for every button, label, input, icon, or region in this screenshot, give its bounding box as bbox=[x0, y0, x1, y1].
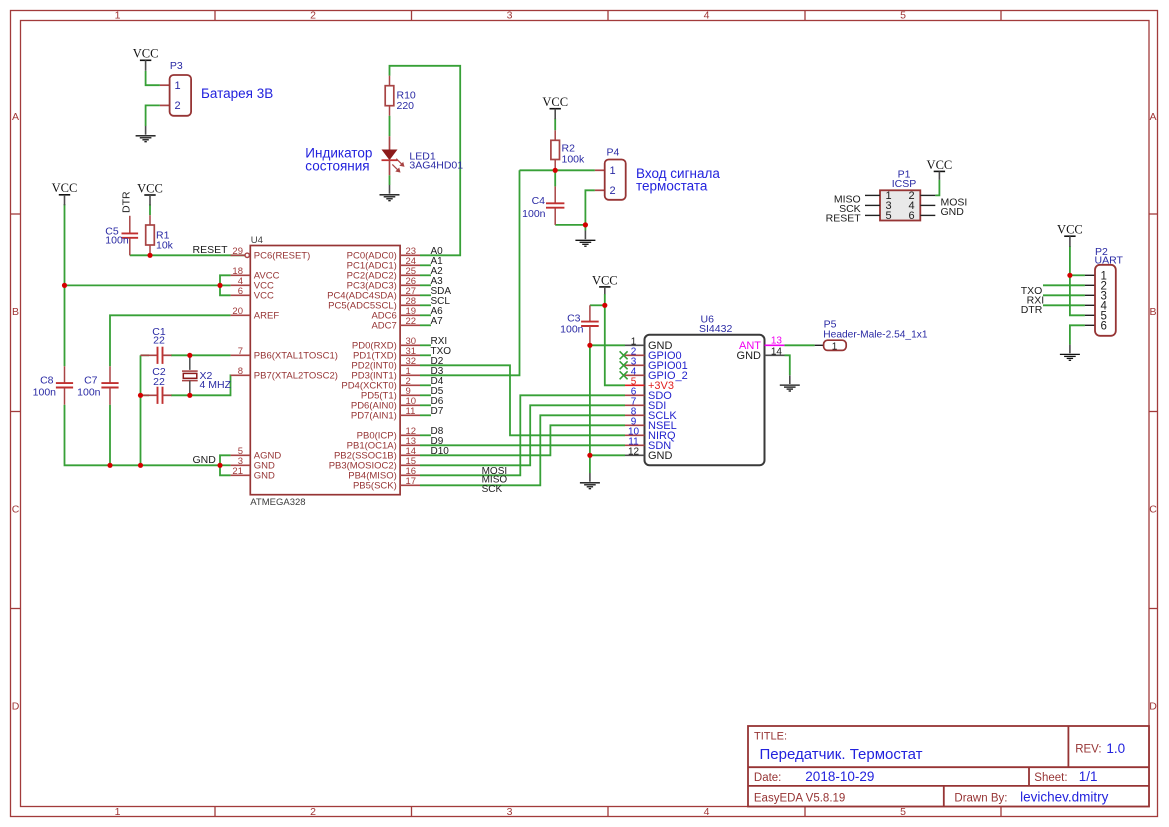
svg-text:VCC: VCC bbox=[133, 47, 159, 61]
title block Drawn By: bbox=[954, 793, 1007, 805]
svg-text:4: 4 bbox=[704, 806, 710, 818]
svg-text:5: 5 bbox=[885, 210, 891, 222]
svg-text:2: 2 bbox=[310, 806, 316, 818]
capacitor C4 bbox=[546, 186, 564, 225]
wire A0 to LED rail bbox=[390, 66, 461, 256]
svg-text:A7: A7 bbox=[431, 316, 444, 327]
svg-text:GND: GND bbox=[192, 454, 216, 466]
annotation Батарея 3В bbox=[201, 86, 273, 101]
wire C3 bottom to GND pin1 bbox=[590, 344, 625, 346]
label LED1 3AG4HD01 bbox=[409, 151, 463, 172]
svg-text:2018-10-29: 2018-10-29 bbox=[805, 769, 874, 784]
label C7 100n bbox=[77, 375, 101, 399]
wire P2 pin6 to ground bbox=[1070, 325, 1085, 344]
svg-text:DTR: DTR bbox=[121, 191, 133, 213]
svg-text:B: B bbox=[1149, 306, 1156, 318]
svg-text:3: 3 bbox=[507, 10, 513, 22]
svg-text:VCC: VCC bbox=[254, 291, 274, 302]
wire VCC P1 down bbox=[935, 180, 939, 196]
svg-text:DTR: DTR bbox=[1021, 304, 1043, 316]
wire R2 net to P4 pin1 bbox=[520, 169, 595, 171]
svg-text:R2: R2 bbox=[562, 143, 576, 155]
capacitor C1 bbox=[141, 347, 172, 364]
wire P2 pin2 TXO bbox=[1043, 284, 1085, 286]
connector P1 bbox=[865, 190, 935, 222]
net label GND bbox=[192, 454, 216, 466]
net label RESET bbox=[192, 244, 228, 256]
wire VCC to +3V3 pin bbox=[605, 294, 625, 385]
svg-text:220: 220 bbox=[397, 100, 415, 112]
net label MOSI P1 bbox=[941, 196, 968, 208]
svg-text:C: C bbox=[1149, 503, 1157, 515]
VCC flag at R2 bbox=[542, 95, 568, 119]
wire D9 to SDN bbox=[420, 444, 625, 446]
net label SCK bbox=[482, 484, 503, 495]
title block frame bbox=[748, 726, 1149, 807]
svg-text:VCC: VCC bbox=[927, 158, 953, 172]
svg-text:20: 20 bbox=[232, 306, 243, 317]
svg-text:REV:: REV: bbox=[1075, 744, 1101, 756]
connector P5 bbox=[815, 340, 846, 352]
net label MISO P1 bbox=[834, 194, 861, 206]
title sheet value bbox=[1079, 769, 1098, 784]
wire XTAL C1 row bbox=[141, 354, 231, 356]
svg-text:3: 3 bbox=[507, 806, 513, 818]
annotation Индикатор состояния bbox=[305, 146, 372, 174]
label P2 bbox=[1095, 246, 1108, 258]
wire C4 bottom to ground bbox=[555, 224, 585, 226]
VCC flag left rail bbox=[52, 181, 78, 205]
svg-text:levichev.dmitry: levichev.dmitry bbox=[1020, 790, 1109, 805]
svg-text:12: 12 bbox=[628, 447, 640, 458]
title Передатчик. Термостат bbox=[760, 746, 923, 763]
svg-text:1/1: 1/1 bbox=[1079, 769, 1098, 784]
svg-text:C: C bbox=[12, 503, 20, 515]
label U4 bbox=[251, 235, 263, 246]
ground at P3 bbox=[136, 126, 156, 142]
svg-text:22: 22 bbox=[153, 376, 165, 388]
svg-text:VCC: VCC bbox=[592, 273, 618, 287]
wire VCC to R2 bbox=[554, 119, 556, 131]
svg-text:10k: 10k bbox=[156, 240, 174, 252]
wire R10 to LED bbox=[389, 116, 391, 137]
crystal X2 bbox=[182, 355, 198, 395]
svg-text:P4: P4 bbox=[607, 147, 620, 159]
title block Date: bbox=[754, 772, 782, 784]
label P1 bbox=[898, 169, 911, 181]
label SI4432 bbox=[699, 323, 732, 335]
label ATMEGA328 bbox=[250, 497, 305, 508]
VCC flag at C3 bbox=[592, 273, 618, 294]
svg-text:6: 6 bbox=[908, 210, 914, 222]
IC U4 left pins bbox=[231, 246, 338, 482]
label R2 100k bbox=[562, 143, 586, 166]
IC U6 body bbox=[645, 335, 765, 466]
svg-text:2: 2 bbox=[310, 10, 316, 22]
svg-text:6: 6 bbox=[1101, 320, 1107, 332]
svg-text:21: 21 bbox=[232, 466, 243, 477]
svg-text:P3: P3 bbox=[170, 60, 183, 72]
net label DTR bbox=[121, 191, 133, 213]
wire XTAL left vertical bbox=[140, 355, 142, 465]
wire U6 ground vertical bbox=[590, 345, 625, 473]
wire U6 pin14 to ground bbox=[785, 355, 790, 375]
title block Sheet: bbox=[1034, 772, 1067, 784]
svg-text:Drawn By:: Drawn By: bbox=[954, 793, 1007, 805]
title block EasyEDA version bbox=[754, 793, 845, 805]
VCC flag at P2 bbox=[1057, 223, 1083, 247]
svg-text:GND: GND bbox=[254, 471, 275, 482]
wire U4 net stubs bbox=[420, 265, 431, 435]
svg-text:22: 22 bbox=[153, 335, 165, 347]
svg-text:1: 1 bbox=[175, 80, 181, 92]
wire P3 pin1 from VCC bbox=[146, 71, 160, 85]
svg-text:4 MHZ: 4 MHZ bbox=[200, 379, 232, 391]
resistor R2 bbox=[551, 130, 560, 170]
svg-text:Header-Male-2.54_1x1: Header-Male-2.54_1x1 bbox=[823, 329, 928, 340]
label C3 100n bbox=[560, 312, 584, 335]
svg-text:100n: 100n bbox=[105, 235, 129, 247]
wire C8 bottom to GND rail bbox=[65, 405, 221, 466]
svg-text:100n: 100n bbox=[522, 208, 546, 220]
svg-text:VCC: VCC bbox=[1057, 223, 1083, 237]
wire AVCC/VCC tie bbox=[220, 275, 231, 295]
label P3 bbox=[170, 60, 183, 72]
label C4 100n bbox=[522, 195, 546, 220]
svg-text:RESET: RESET bbox=[192, 244, 228, 256]
wire P2 VCC vertical bbox=[1070, 246, 1085, 315]
ground at LED1 bbox=[380, 185, 400, 201]
svg-text:Sheet:: Sheet: bbox=[1034, 772, 1067, 784]
wire D10 to NSEL bbox=[420, 425, 625, 455]
wire P3 pin2 to ground bbox=[146, 105, 160, 126]
title block TITLE: bbox=[754, 731, 787, 743]
label X2 4 MHZ bbox=[200, 370, 232, 391]
wire C7 bottom to rail bbox=[109, 405, 111, 466]
svg-text:PD7(AIN1): PD7(AIN1) bbox=[351, 411, 397, 422]
wire D3 to thermostat input bbox=[420, 170, 520, 375]
svg-text:5: 5 bbox=[900, 10, 906, 22]
wire P4 pin2 down bbox=[585, 190, 595, 230]
svg-text:состояния: состояния bbox=[305, 159, 369, 174]
label Header-Male-2.54_1x1 bbox=[823, 329, 928, 340]
resistor R10 bbox=[385, 76, 394, 116]
svg-text:5: 5 bbox=[900, 806, 906, 818]
svg-text:D10: D10 bbox=[431, 446, 450, 457]
svg-text:2: 2 bbox=[610, 185, 616, 197]
capacitor C3 bbox=[581, 305, 599, 345]
svg-text:GND: GND bbox=[941, 206, 965, 218]
net label RESET P1 bbox=[826, 212, 862, 224]
svg-text:2: 2 bbox=[175, 100, 181, 112]
ground at C4/P4 bbox=[575, 231, 595, 247]
wire P2 pin4 DTR bbox=[1043, 304, 1085, 306]
svg-text:TITLE:: TITLE: bbox=[754, 731, 787, 743]
wire C3 top bbox=[590, 304, 605, 306]
net label MOSI bbox=[482, 466, 508, 477]
svg-text:VCC: VCC bbox=[542, 95, 568, 109]
wire RESET net bbox=[130, 254, 245, 256]
wire XTAL C2 row bbox=[141, 375, 231, 395]
svg-text:C7: C7 bbox=[84, 375, 98, 387]
label R1 10k bbox=[156, 230, 174, 252]
svg-text:SI4432: SI4432 bbox=[699, 323, 732, 335]
label P5 bbox=[824, 318, 837, 330]
wire SCK to SCLK bbox=[420, 415, 625, 485]
capacitor C5 bbox=[122, 216, 139, 256]
net label RXI bbox=[1027, 295, 1045, 307]
ground at U6 pin14 bbox=[780, 375, 800, 391]
VCC flag at P3 bbox=[133, 47, 159, 71]
svg-text:C4: C4 bbox=[532, 195, 546, 207]
net label GND P1 bbox=[941, 206, 965, 218]
label R10 220 bbox=[397, 89, 416, 112]
wire VCC rail left vertical bbox=[64, 204, 66, 366]
net label TXO bbox=[1021, 285, 1043, 297]
wire MISO to SDO bbox=[420, 395, 625, 475]
net label DTR P2 bbox=[1021, 304, 1043, 316]
svg-text:1: 1 bbox=[115, 10, 121, 22]
svg-text:29: 29 bbox=[232, 246, 243, 257]
svg-text:1.0: 1.0 bbox=[1106, 741, 1125, 756]
annotation Вход сигнала термостата bbox=[636, 166, 720, 194]
wire LED to ground bbox=[389, 175, 391, 185]
svg-text:ICSP: ICSP bbox=[892, 178, 917, 190]
svg-text:100n: 100n bbox=[33, 387, 57, 399]
svg-text:100n: 100n bbox=[77, 387, 101, 399]
wire C4 top junction bbox=[554, 170, 556, 186]
svg-text:UART: UART bbox=[1095, 254, 1124, 266]
ground at P2 bbox=[1060, 345, 1080, 361]
title drawn by value bbox=[1020, 790, 1109, 805]
wire D2 to NIRQ bbox=[420, 365, 625, 435]
svg-text:PB5(SCK): PB5(SCK) bbox=[353, 481, 397, 492]
net label MISO bbox=[482, 475, 508, 486]
wire VCC rail horizontal bbox=[65, 284, 221, 286]
title date value bbox=[805, 769, 874, 784]
svg-text:3AG4HD01: 3AG4HD01 bbox=[409, 160, 463, 172]
svg-text:AREF: AREF bbox=[254, 311, 280, 322]
label ICSP bbox=[892, 178, 917, 190]
svg-text:B: B bbox=[12, 306, 19, 318]
svg-text:D: D bbox=[12, 700, 20, 712]
svg-text:GND: GND bbox=[648, 450, 673, 462]
svg-text:EasyEDA V5.8.19: EasyEDA V5.8.19 bbox=[754, 793, 845, 805]
label C5 100n bbox=[105, 226, 129, 247]
svg-text:ATMEGA328: ATMEGA328 bbox=[250, 497, 305, 508]
svg-text:11: 11 bbox=[406, 406, 416, 417]
svg-text:1: 1 bbox=[115, 806, 121, 818]
IC U4 right pins bbox=[327, 246, 451, 492]
label UART bbox=[1095, 254, 1124, 266]
svg-text:VCC: VCC bbox=[137, 181, 163, 195]
wire P2 pin3 RXI bbox=[1043, 294, 1085, 296]
resistor R1 bbox=[146, 215, 155, 255]
ground at U6/C3 bbox=[580, 473, 600, 489]
title rev value bbox=[1106, 741, 1125, 756]
svg-text:U4: U4 bbox=[251, 235, 263, 246]
connector P4 bbox=[595, 160, 626, 200]
label U6 bbox=[701, 314, 715, 326]
svg-text:13: 13 bbox=[771, 336, 783, 347]
svg-text:Батарея 3В: Батарея 3В bbox=[201, 86, 273, 101]
svg-text:4: 4 bbox=[704, 10, 710, 22]
svg-text:D7: D7 bbox=[431, 406, 444, 417]
svg-text:ADC7: ADC7 bbox=[371, 321, 396, 332]
connector P2 bbox=[1085, 265, 1116, 336]
wire MOSI to SDI bbox=[420, 405, 625, 465]
capacitor C2 bbox=[141, 387, 172, 404]
svg-text:14: 14 bbox=[771, 347, 783, 358]
svg-text:17: 17 bbox=[406, 476, 417, 487]
wire P2 pin1 bbox=[1070, 274, 1085, 276]
VCC flag at P1 bbox=[927, 158, 953, 180]
svg-text:SCK: SCK bbox=[482, 484, 503, 495]
svg-text:22: 22 bbox=[406, 316, 417, 327]
svg-text:Date:: Date: bbox=[754, 772, 782, 784]
svg-text:PC6(RESET): PC6(RESET) bbox=[254, 251, 310, 262]
wire AREF to C7 bbox=[110, 315, 231, 366]
svg-text:C8: C8 bbox=[40, 375, 54, 387]
IC U6 left pins bbox=[620, 337, 688, 462]
svg-text:термостата: термостата bbox=[636, 178, 708, 193]
svg-text:7: 7 bbox=[238, 346, 243, 357]
net label SCK P1 bbox=[839, 203, 861, 215]
svg-text:Передатчик. Термостат: Передатчик. Термостат bbox=[760, 746, 923, 763]
wire ANT to P5 bbox=[784, 344, 814, 346]
wire AGND/GND tie bbox=[220, 455, 231, 475]
svg-text:PB7(XTAL2TOSC2): PB7(XTAL2TOSC2) bbox=[254, 371, 338, 382]
svg-text:RESET: RESET bbox=[826, 212, 862, 224]
svg-text:100n: 100n bbox=[560, 323, 584, 335]
VCC flag at R1 bbox=[137, 181, 163, 205]
svg-text:1: 1 bbox=[610, 165, 616, 177]
svg-text:6: 6 bbox=[238, 286, 243, 297]
svg-text:8: 8 bbox=[238, 366, 243, 377]
IC U6 right pins bbox=[737, 336, 785, 362]
connector P3 bbox=[160, 75, 191, 116]
svg-text:GND: GND bbox=[737, 350, 762, 362]
capacitor C7 bbox=[101, 366, 118, 404]
capacitor C8 bbox=[56, 366, 73, 404]
svg-text:VCC: VCC bbox=[52, 181, 78, 195]
wire VCC to R1 bbox=[149, 204, 151, 215]
label C2 22 bbox=[152, 366, 166, 388]
label C1 22 bbox=[152, 326, 166, 347]
svg-text:A: A bbox=[12, 111, 19, 123]
LED LED1 bbox=[382, 136, 404, 175]
svg-text:PB6(XTAL1TOSC1): PB6(XTAL1TOSC1) bbox=[254, 351, 338, 362]
IC U4 body bbox=[250, 246, 400, 495]
svg-text:100k: 100k bbox=[562, 154, 586, 166]
label C8 100n bbox=[33, 375, 57, 399]
label P4 bbox=[607, 147, 620, 159]
title block REV: bbox=[1075, 744, 1101, 756]
svg-text:A: A bbox=[1149, 111, 1156, 123]
svg-text:D: D bbox=[1149, 700, 1157, 712]
svg-text:1: 1 bbox=[832, 341, 838, 352]
